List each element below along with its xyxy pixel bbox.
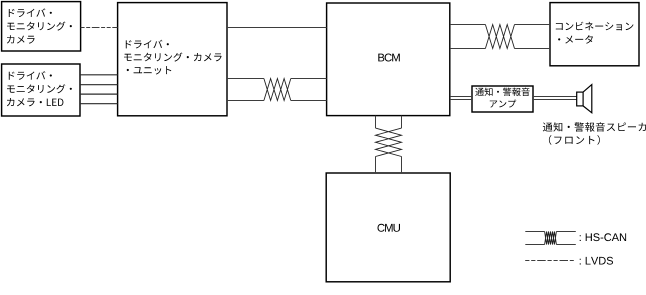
box: BCM bbox=[327, 3, 450, 116]
box: combination meter bbox=[550, 3, 639, 66]
speaker: notification/warning sound speaker bbox=[577, 85, 592, 113]
wire: BCM to amplifier (speaker pair) bbox=[450, 97, 472, 100]
twisted pair: unit to BCM HS-CAN bbox=[227, 79, 327, 101]
box: notification/warning sound amplifier bbox=[472, 86, 533, 112]
twisted pair: BCM to CMU HS-CAN (vertical) bbox=[376, 116, 402, 173]
legend: LVDS text bbox=[580, 257, 613, 265]
legend: HS-CAN symbol bbox=[525, 232, 576, 245]
wire: amplifier to speaker (speaker pair) bbox=[533, 97, 577, 100]
wire: LED lines (4) bbox=[80, 75, 118, 104]
legend: LVDS dashed line bbox=[525, 260, 574, 262]
legend: HS-CAN text bbox=[580, 233, 626, 241]
box: driver monitoring camera bbox=[2, 2, 81, 51]
box: CMU bbox=[326, 173, 450, 282]
label: speaker name bbox=[543, 122, 646, 145]
box: driver monitoring camera unit bbox=[118, 3, 227, 116]
wire: unit to BCM video line bbox=[227, 27, 327, 29]
wire: LVDS camera to unit (dashed) bbox=[81, 27, 118, 29]
twisted pair: BCM to combination meter HS-CAN bbox=[450, 25, 550, 49]
box: driver monitoring camera LED bbox=[2, 64, 80, 116]
